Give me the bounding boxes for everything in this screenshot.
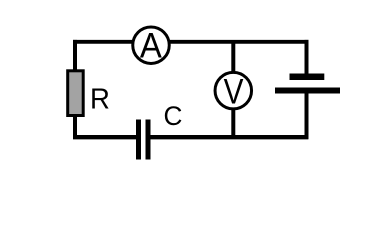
wire right vertical lower	[305, 92, 309, 139]
svg-text:C: C	[164, 100, 183, 130]
wire left vertical upper	[73, 40, 77, 71]
capacitor C	[136, 120, 151, 160]
wire bottom right segment	[150, 135, 309, 139]
ammeter A	[133, 26, 170, 65]
wire right vertical upper	[305, 40, 309, 75]
wire top horizontal	[73, 40, 309, 44]
battery	[275, 74, 340, 94]
svg-text:R: R	[90, 82, 110, 115]
wire left vertical lower	[73, 115, 77, 139]
svg-text:V: V	[224, 72, 244, 111]
wire bottom left segment	[73, 135, 137, 139]
wire voltmeter bottom stub	[231, 108, 235, 138]
svg-text:A: A	[140, 26, 162, 65]
voltmeter V	[215, 72, 252, 111]
wire voltmeter top stub	[231, 41, 235, 73]
resistor R	[68, 71, 84, 116]
